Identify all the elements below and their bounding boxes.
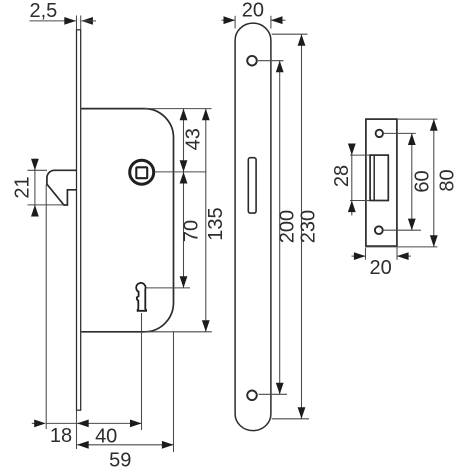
faceplate front view <box>235 23 271 430</box>
extension line latch bottom <box>28 204 64 206</box>
dimension 18 text <box>50 425 72 447</box>
svg-text:70: 70 <box>181 220 203 242</box>
strike screw hole top <box>376 130 383 137</box>
extension line bottom hole axis <box>259 393 288 395</box>
dimension 20 bottom line left <box>352 252 366 260</box>
dimension 43 bottom arrow <box>180 160 188 172</box>
dimension 2,5 leader line <box>30 20 76 22</box>
screw hole bottom <box>247 391 257 401</box>
dimension 21 line <box>34 159 36 217</box>
dimension 43 text <box>182 128 204 150</box>
svg-text:60: 60 <box>411 170 433 192</box>
svg-text:135: 135 <box>205 207 227 240</box>
spindle square hole <box>136 167 147 178</box>
strike lip line <box>373 155 375 200</box>
dimension 200 bottom arrow <box>276 383 284 395</box>
extension line body top <box>145 108 212 110</box>
spindle follower circle <box>130 160 154 184</box>
dimension 28 text <box>331 165 353 187</box>
dimension 40 right arrow <box>130 420 142 428</box>
dimension 60 bottom arrow <box>408 219 416 231</box>
dimension 20 top text <box>242 0 264 22</box>
extension line latch tip vertical <box>45 185 47 430</box>
dimension 28 top arrow <box>348 144 356 156</box>
dimension 135 line <box>205 109 207 332</box>
extension line strike hole top axis <box>383 132 416 134</box>
dimension 200 text <box>276 210 298 243</box>
latch slot <box>248 158 256 213</box>
svg-text:43: 43 <box>182 128 204 150</box>
dimension 60 line <box>411 133 413 230</box>
dimension 21 bottom arrow <box>31 205 39 217</box>
extension line spindle axis vertical <box>141 313 143 430</box>
dimension 20 bottom line right <box>397 252 411 260</box>
dimension 80 bottom arrow <box>430 235 438 247</box>
extension line body bottom <box>145 331 212 333</box>
dimension 230 line <box>301 34 303 419</box>
dimension 135 bottom arrow <box>202 320 210 332</box>
dimension 59 left arrow <box>77 441 89 449</box>
latch bolt <box>47 170 77 205</box>
dimension 18 left arrow <box>32 420 46 428</box>
svg-text:20: 20 <box>242 0 264 22</box>
extension lines plate faces above <box>77 16 81 30</box>
svg-text:28: 28 <box>331 165 353 187</box>
extension line keyhole axis <box>147 287 191 289</box>
dimension 80 text <box>436 169 458 191</box>
svg-text:200: 200 <box>276 210 298 243</box>
dimension 230 bottom arrow <box>298 407 306 419</box>
extension line strike top <box>397 118 438 120</box>
faceplate side view <box>77 30 81 410</box>
svg-text:21: 21 <box>12 176 34 198</box>
svg-text:20: 20 <box>369 257 391 279</box>
extension lines strike width <box>366 248 398 260</box>
dimension 21 top arrow <box>31 159 39 171</box>
dimension 59 text <box>109 449 131 470</box>
dimension 59 line <box>77 444 173 446</box>
extension line plate face down <box>76 410 78 449</box>
svg-text:2,5: 2,5 <box>29 0 57 22</box>
extension lines faceplate width <box>235 16 271 29</box>
dimension 60 text <box>411 170 433 192</box>
extension line faceplate top tangent <box>272 33 308 35</box>
strike screw hole bottom <box>375 226 383 234</box>
extension line strike bottom <box>366 246 437 248</box>
strike opening <box>370 155 388 200</box>
svg-text:40: 40 <box>95 425 117 447</box>
dimension 70 line <box>183 172 185 288</box>
dimension 60 top arrow <box>408 133 416 145</box>
extension line strike hole bottom axis <box>383 229 421 231</box>
dimension 70 top arrow <box>180 172 188 184</box>
dimension 2,5 right arrow <box>81 17 96 25</box>
dimension 135 top arrow <box>202 109 210 121</box>
keyhole <box>136 283 146 311</box>
dimension 43 top arrow <box>180 109 188 121</box>
dimension 40 left arrow <box>77 420 89 428</box>
extension line body right down <box>173 332 175 452</box>
extension line spindle axis <box>155 171 207 173</box>
dimension 21 text <box>12 176 34 198</box>
dimension 135 text <box>205 207 227 240</box>
extension line opening top <box>350 154 370 156</box>
dimension 80 line <box>433 119 435 247</box>
dimension 20 top line left <box>222 16 236 24</box>
svg-text:18: 18 <box>50 425 72 447</box>
extension line top hole axis <box>258 60 284 62</box>
dimension 28 line <box>351 144 353 216</box>
extension line opening bottom <box>350 200 370 202</box>
screw hole top <box>247 56 257 66</box>
dimension 59 right arrow <box>162 441 174 449</box>
svg-text:230: 230 <box>298 210 320 243</box>
dimension 70 bottom arrow <box>180 276 188 288</box>
dimension 28 bottom arrow <box>348 201 356 213</box>
dimension 230 text <box>298 210 320 243</box>
dimension 20 top line right <box>271 16 286 24</box>
dimension 200 line <box>279 61 281 395</box>
extension line latch top <box>28 169 48 171</box>
dimension 70 text <box>181 220 203 242</box>
strike plate <box>366 119 397 246</box>
extension line faceplate bottom tangent <box>272 418 309 420</box>
dimension 18-40 line <box>46 422 142 424</box>
svg-text:59: 59 <box>109 449 131 470</box>
svg-text:80: 80 <box>436 169 458 191</box>
dimension 43 line <box>183 109 185 172</box>
dimension 200 top arrow <box>276 61 284 73</box>
dimension 2,5 text <box>29 0 57 22</box>
dimension 230 top arrow <box>298 34 306 46</box>
dimension 40 text <box>95 425 117 447</box>
dimension 20 bottom text <box>369 257 391 279</box>
lock body side view <box>81 109 173 332</box>
dimension 80 top arrow <box>430 119 438 131</box>
dimension 2,5 left arrow <box>64 17 76 25</box>
